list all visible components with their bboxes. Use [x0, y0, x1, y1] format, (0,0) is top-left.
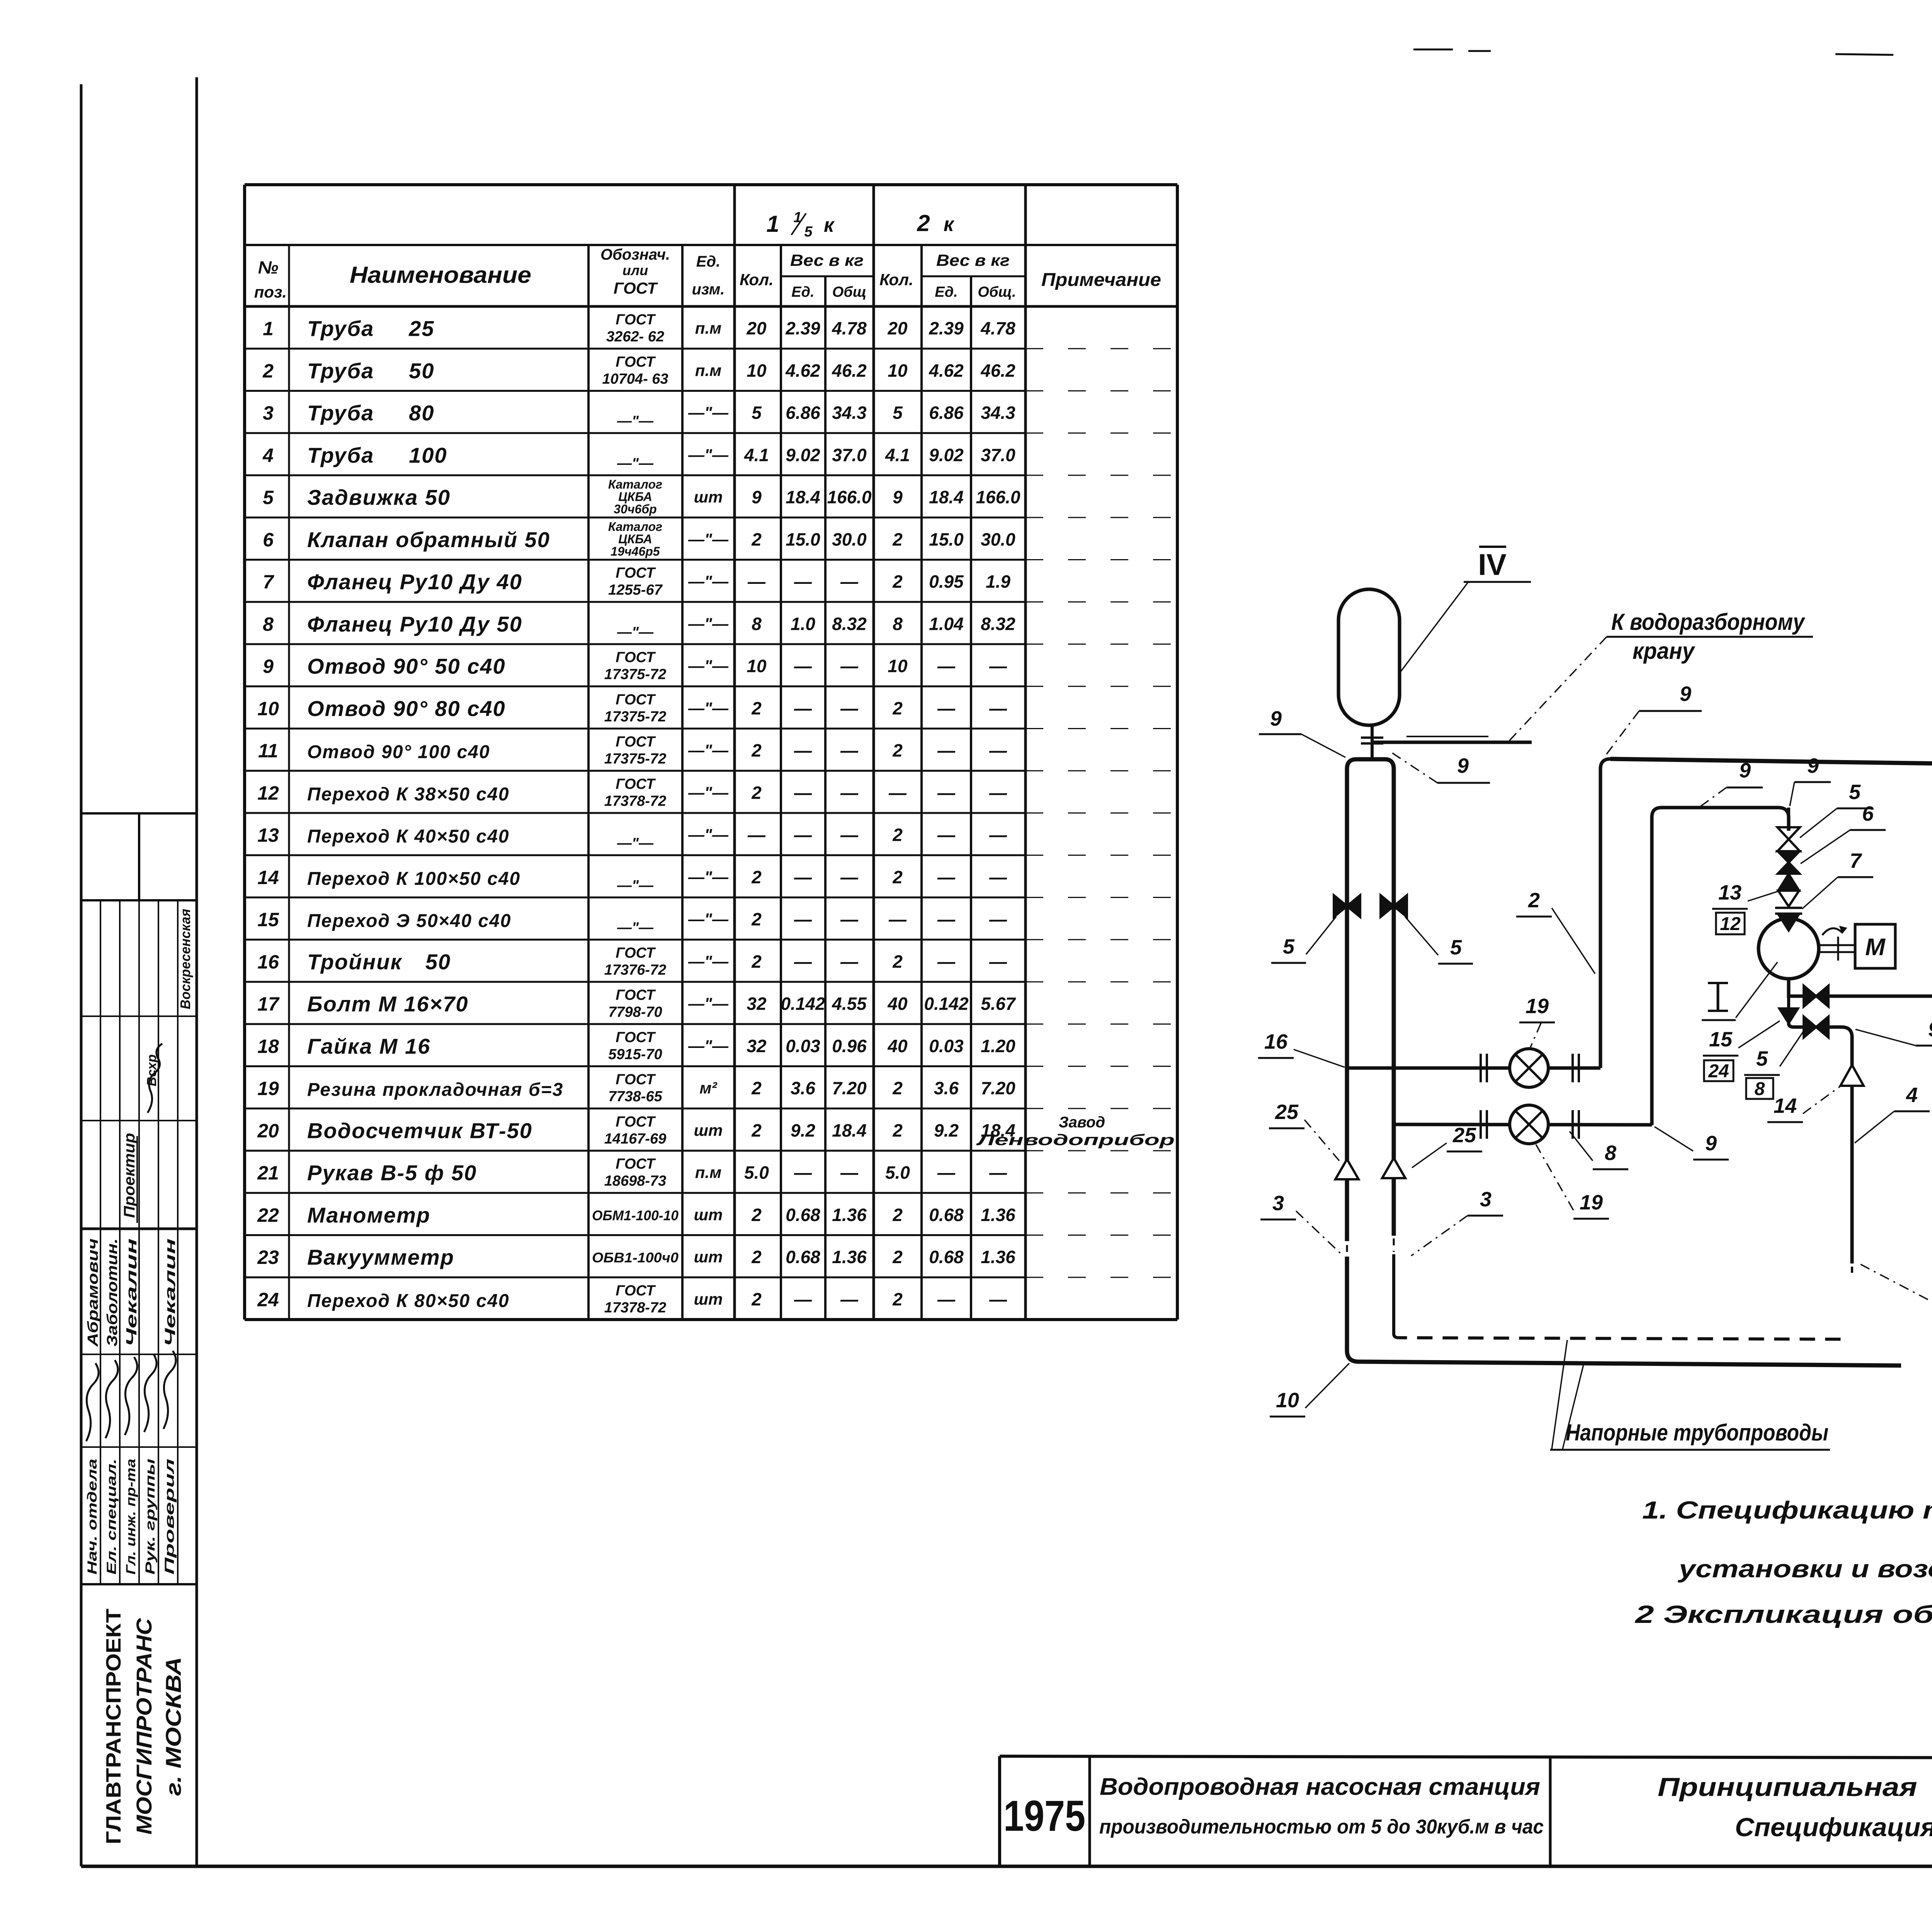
svg-text:—"—: —"— [688, 657, 729, 675]
svg-text:8.32: 8.32 [981, 614, 1015, 634]
svg-text:—: — [840, 698, 859, 718]
svg-text:37.0: 37.0 [832, 445, 867, 465]
svg-text:—: — [794, 1289, 812, 1309]
pump I suction branch [1789, 1023, 1852, 1264]
svg-text:6.86: 6.86 [929, 403, 964, 423]
svg-text:—"—: —"— [688, 1037, 729, 1055]
svg-text:ГОСТ: ГОСТ [614, 279, 658, 297]
svg-text:—: — [937, 825, 956, 845]
svg-text:—: — [840, 740, 859, 760]
svg-text:Всхр: Всхр [145, 1054, 159, 1087]
svg-text:10: 10 [888, 656, 908, 676]
valve 5 on pump I discharge [1804, 986, 1816, 1007]
svg-text:ГОСТ: ГОСТ [616, 776, 656, 792]
svg-text:2: 2 [892, 1205, 903, 1225]
svg-text:4: 4 [262, 444, 274, 466]
svg-text:Кол.: Кол. [879, 270, 913, 289]
svg-text:5: 5 [752, 403, 762, 423]
svg-text:п.м: п.м [695, 319, 721, 337]
svg-text:Вакуумметр: Вакуумметр [307, 1245, 454, 1269]
svg-text:9.02: 9.02 [929, 445, 964, 465]
svg-text:Труба 80: Труба 80 [307, 401, 435, 425]
svg-text:8: 8 [893, 614, 903, 634]
svg-text:К водоразборному: К водоразборному [1611, 609, 1805, 635]
svg-text:Рук. группы: Рук. группы [143, 1459, 158, 1575]
svg-text:—: — [937, 740, 956, 760]
svg-text:Абрамович: Абрамович [85, 1238, 101, 1347]
svg-text:2: 2 [892, 529, 903, 549]
svg-text:Болт М 16×70: Болт М 16×70 [307, 992, 469, 1016]
svg-text:или: или [622, 262, 648, 278]
svg-text:IV: IV [1478, 548, 1507, 582]
svg-text:2: 2 [892, 867, 903, 887]
svg-text:14167-69: 14167-69 [604, 1131, 667, 1147]
svg-text:20: 20 [887, 318, 908, 338]
svg-text:п.м: п.м [695, 1163, 721, 1182]
svg-text:—"—: —"— [688, 446, 729, 464]
svg-text:7: 7 [1850, 849, 1862, 872]
svg-text:17: 17 [257, 993, 280, 1015]
svg-text:6.86: 6.86 [786, 403, 820, 423]
svg-text:Переход К 40×50 с40: Переход К 40×50 с40 [307, 827, 510, 847]
svg-text:4.62: 4.62 [785, 361, 820, 381]
svg-text:17378-72: 17378-72 [604, 1299, 667, 1316]
svg-text:—: — [840, 782, 859, 803]
svg-text:Чекалин: Чекалин [124, 1238, 140, 1347]
svg-text:—"—: —"— [688, 614, 729, 633]
svg-text:9: 9 [752, 487, 762, 507]
svg-text:Ленводоприбор: Ленводоприбор [976, 1131, 1175, 1148]
svg-text:0.95: 0.95 [929, 571, 964, 592]
svg-text:14: 14 [1774, 1094, 1797, 1117]
svg-text:10: 10 [1276, 1389, 1299, 1412]
svg-text:9: 9 [1680, 682, 1691, 706]
svg-text:Ел. специал.: Ел. специал. [104, 1459, 119, 1575]
svg-text:5: 5 [1756, 1047, 1768, 1070]
svg-text:ОБМ1-100-10: ОБМ1-100-10 [592, 1207, 679, 1223]
svg-text:15: 15 [1709, 1028, 1733, 1051]
svg-text:8: 8 [752, 614, 762, 634]
svg-text:—: — [888, 909, 907, 929]
pipe riser A (поз.3) [1347, 759, 1372, 1241]
svg-text:5: 5 [1283, 935, 1295, 958]
svg-text:18: 18 [257, 1036, 279, 1057]
svg-text:производительностью от 5 до 3: производительностью от 5 до 30куб.м в ча… [1099, 1816, 1544, 1838]
svg-text:—: — [794, 1163, 812, 1183]
svg-text:—: — [794, 867, 812, 887]
svg-text:20: 20 [257, 1120, 279, 1141]
svg-text:Примечание: Примечание [1041, 270, 1161, 290]
svg-text:4.62: 4.62 [929, 361, 964, 381]
svg-text:1.36: 1.36 [981, 1205, 1015, 1225]
svg-text:7.20: 7.20 [832, 1078, 867, 1098]
pump I reducer 13/12 (cones) [1778, 874, 1799, 891]
svg-text:—: — [937, 656, 956, 676]
reducer 25 on riser B [1382, 1158, 1405, 1178]
svg-text:—"—: —"— [688, 403, 729, 422]
svg-text:шт: шт [694, 1290, 723, 1308]
svg-text:9: 9 [263, 656, 274, 677]
svg-text:—: — [794, 656, 812, 676]
title block top line [1000, 1756, 1932, 1759]
svg-text:2: 2 [751, 1205, 762, 1225]
svg-text:—: — [989, 782, 1007, 803]
svg-text:30ч6бр: 30ч6бр [614, 502, 656, 516]
svg-text:10: 10 [257, 698, 279, 719]
svg-text:—: — [747, 825, 766, 845]
svg-text:—"—: —"— [688, 910, 729, 928]
svg-text:Гл. инж. пр-та: Гл. инж. пр-та [124, 1459, 138, 1575]
gate valve 5 on riser B [1381, 895, 1394, 917]
sidebar divider above small cells [81, 812, 197, 815]
svg-text:22: 22 [257, 1204, 279, 1226]
svg-text:—: — [937, 782, 956, 803]
svg-text:7.20: 7.20 [981, 1078, 1015, 1098]
svg-text:Клапан обратный 50: Клапан обратный 50 [307, 527, 550, 552]
svg-text:—: — [840, 656, 859, 676]
svg-text:7738-65: 7738-65 [608, 1088, 662, 1105]
svg-text:2: 2 [751, 1289, 762, 1309]
svg-text:—"—: —"— [688, 952, 729, 970]
svg-text:19: 19 [1526, 995, 1549, 1018]
svg-text:—: — [794, 698, 812, 718]
svg-text:15: 15 [257, 909, 279, 930]
svg-text:—: — [794, 951, 812, 971]
svg-text:—: — [840, 1163, 859, 1183]
svg-text:—: — [888, 782, 907, 803]
svg-text:2: 2 [892, 1289, 903, 1309]
svg-text:18.4: 18.4 [786, 487, 820, 507]
main top header pipe [1611, 759, 1932, 812]
svg-text:5915-70: 5915-70 [608, 1046, 662, 1063]
svg-text:—: — [794, 571, 812, 592]
svg-text:ГОСТ: ГОСТ [616, 945, 656, 961]
svg-text:Переход К 38×50 с40: Переход К 38×50 с40 [307, 784, 510, 804]
svg-text:—"—: —"— [617, 835, 654, 852]
svg-text:—: — [794, 909, 812, 929]
svg-text:1.9: 1.9 [986, 571, 1010, 592]
svg-text:8: 8 [1755, 1079, 1765, 1099]
svg-text:2.39: 2.39 [929, 318, 964, 338]
meter line 2 pipe [1394, 1124, 1652, 1125]
svg-text:2: 2 [751, 867, 762, 887]
svg-text:0.142: 0.142 [924, 994, 969, 1014]
svg-text:Заболотин.: Заболотин. [104, 1238, 121, 1347]
svg-text:13: 13 [257, 825, 279, 846]
svg-text:к: к [824, 214, 835, 236]
pump I inlet cone [1779, 916, 1798, 930]
svg-text:Принципиальная схема.: Принципиальная схема. [1658, 1772, 1932, 1802]
svg-text:0.68: 0.68 [929, 1205, 964, 1225]
svg-text:4.1: 4.1 [885, 445, 910, 465]
svg-text:2: 2 [892, 951, 903, 971]
svg-text:г. МОСКВА: г. МОСКВА [161, 1657, 185, 1796]
svg-text:9.02: 9.02 [786, 445, 820, 465]
svg-text:—: — [840, 867, 859, 887]
svg-text:0.68: 0.68 [929, 1247, 964, 1267]
svg-text:МОСГИПРОТРАНС: МОСГИПРОТРАНС [132, 1617, 156, 1835]
svg-text:—"—: —"— [688, 741, 729, 759]
svg-text:15.0: 15.0 [929, 529, 964, 549]
svg-text:1: 1 [766, 211, 779, 237]
svg-text:4.78: 4.78 [832, 318, 867, 338]
svg-text:Кол.: Кол. [740, 270, 774, 289]
svg-text:24: 24 [1708, 1061, 1729, 1082]
svg-text:5.0: 5.0 [885, 1163, 910, 1183]
svg-text:ГОСТ: ГОСТ [616, 987, 656, 1003]
svg-text:—: — [989, 951, 1007, 971]
svg-text:2: 2 [751, 698, 762, 718]
svg-text:—: — [937, 1289, 956, 1309]
svg-text:3.6: 3.6 [791, 1078, 815, 1098]
svg-text:—: — [937, 698, 956, 718]
svg-text:шт: шт [694, 488, 723, 506]
svg-text:Вес в кг: Вес в кг [790, 251, 864, 269]
svg-text:9: 9 [893, 487, 903, 507]
svg-text:3: 3 [1272, 1192, 1284, 1215]
water meter 20 lower (circle-X) [1510, 1105, 1548, 1144]
page frame bottom border [81, 1865, 1932, 1868]
svg-text:Ед.: Ед. [791, 284, 814, 300]
svg-text:24: 24 [257, 1289, 279, 1310]
svg-text:Переход К 80×50 с40: Переход К 80×50 с40 [307, 1291, 510, 1311]
svg-text:установки и воздушно-напорно: установки и воздушно-напорного колпака с… [1677, 1555, 1932, 1583]
svg-text:2: 2 [751, 1247, 762, 1267]
svg-text:12: 12 [257, 782, 279, 804]
svg-text:1: 1 [793, 209, 801, 226]
pump I flange 7 [1775, 907, 1802, 909]
svg-text:Переход Э 50×40 с40: Переход Э 50×40 с40 [307, 911, 512, 931]
svg-text:9: 9 [1270, 707, 1282, 730]
flanges on meter 1 [1480, 1054, 1482, 1082]
svg-text:9: 9 [1705, 1132, 1717, 1155]
svg-text:ГОСТ: ГОСТ [616, 1282, 656, 1299]
svg-text:—: — [794, 825, 812, 845]
svg-text:—: — [989, 656, 1007, 676]
svg-text:—: — [989, 1163, 1007, 1183]
svg-text:4.78: 4.78 [980, 318, 1015, 338]
page frame inner border (sidebar right / drawing left) [196, 77, 198, 1866]
svg-text:Каталог: Каталог [608, 520, 662, 534]
svg-text:166.0: 166.0 [976, 487, 1020, 507]
svg-text:—: — [989, 740, 1007, 760]
svg-text:ЦКБА: ЦКБА [618, 490, 652, 504]
svg-text:поз.: поз. [254, 283, 287, 301]
svg-text:—: — [747, 571, 766, 592]
svg-text:0.03: 0.03 [929, 1036, 964, 1056]
svg-text:ГОСТ: ГОСТ [616, 692, 656, 708]
svg-text:—: — [840, 909, 859, 929]
svg-text:5.0: 5.0 [744, 1163, 769, 1183]
table body rows [245, 348, 1026, 350]
svg-text:23: 23 [257, 1247, 279, 1268]
svg-text:17375-72: 17375-72 [604, 751, 667, 767]
svg-text:32: 32 [747, 994, 767, 1014]
svg-text:0.68: 0.68 [786, 1205, 820, 1225]
svg-text:—: — [937, 909, 956, 929]
sidebar signature table top line [81, 899, 197, 901]
flanges on meter 2 [1480, 1110, 1482, 1139]
svg-text:2: 2 [892, 740, 903, 760]
svg-text:—"—: —"— [688, 868, 729, 886]
svg-text:16: 16 [1264, 1030, 1288, 1053]
svg-text:2: 2 [892, 571, 903, 592]
svg-text:ГОСТ: ГОСТ [616, 1071, 656, 1088]
svg-text:2: 2 [262, 360, 274, 382]
svg-text:30.0: 30.0 [832, 529, 867, 549]
svg-text:18698-73: 18698-73 [604, 1173, 667, 1189]
svg-text:Манометр: Манометр [307, 1203, 430, 1227]
svg-text:6: 6 [263, 529, 274, 551]
svg-text:—"—: —"— [617, 624, 654, 640]
svg-text:Резина прокладочная б=3: Резина прокладочная б=3 [307, 1080, 563, 1100]
pipe riser B (поз.3) [1372, 759, 1394, 1236]
svg-text:—: — [937, 951, 956, 971]
svg-text:9.2: 9.2 [934, 1120, 959, 1140]
svg-text:шт: шт [694, 1121, 723, 1139]
svg-text:Воскресенская: Воскресенская [177, 909, 193, 1009]
svg-text:1.36: 1.36 [832, 1247, 867, 1267]
svg-text:17378-72: 17378-72 [604, 793, 667, 809]
svg-text:ГОСТ: ГОСТ [616, 354, 656, 370]
svg-text:1255-67: 1255-67 [608, 582, 663, 598]
svg-text:2: 2 [751, 529, 762, 549]
svg-text:46.2: 46.2 [832, 361, 867, 381]
svg-text:1: 1 [263, 318, 274, 340]
svg-text:10: 10 [747, 656, 767, 676]
svg-text:3262- 62: 3262- 62 [606, 329, 664, 345]
svg-text:Труба 25: Труба 25 [307, 316, 435, 341]
svg-text:Нач. отдела: Нач. отдела [85, 1459, 100, 1575]
svg-text:14: 14 [257, 867, 279, 888]
svg-text:—: — [989, 867, 1007, 887]
svg-text:ГОСТ: ГОСТ [616, 734, 656, 750]
svg-text:5: 5 [263, 487, 274, 509]
svg-text:—"—: —"— [617, 920, 654, 936]
svg-text:№: № [258, 257, 279, 277]
svg-text:0.142: 0.142 [781, 994, 825, 1014]
svg-text:—: — [794, 740, 812, 760]
svg-text:17375-72: 17375-72 [604, 709, 667, 725]
svg-text:2: 2 [892, 1078, 903, 1098]
svg-text:Проектир: Проектир [121, 1133, 138, 1218]
svg-text:М: М [1865, 934, 1886, 961]
svg-text:ГЛАВТРАНСПРОЕКТ: ГЛАВТРАНСПРОЕКТ [102, 1609, 125, 1844]
svg-text:2: 2 [917, 210, 930, 236]
svg-text:Труба 100: Труба 100 [307, 443, 447, 467]
svg-text:—: — [840, 825, 859, 845]
svg-text:2: 2 [751, 1120, 762, 1140]
svg-text:ГОСТ: ГОСТ [616, 312, 656, 328]
svg-text:9.2: 9.2 [791, 1120, 815, 1140]
svg-text:Каталог: Каталог [608, 478, 662, 492]
svg-text:—"—: —"— [688, 530, 729, 548]
svg-text:—"—: —"— [617, 878, 654, 894]
svg-text:19: 19 [1580, 1191, 1603, 1214]
pump I shaft [1819, 944, 1855, 946]
svg-text:Обознач.: Обознач. [600, 246, 670, 263]
svg-text:4.1: 4.1 [744, 445, 769, 465]
svg-text:—"—: —"— [688, 783, 729, 801]
svg-text:крану: крану [1633, 638, 1695, 664]
svg-text:1.0: 1.0 [791, 614, 815, 634]
svg-text:25: 25 [1452, 1124, 1476, 1147]
pump I rotation arrow [1822, 928, 1842, 935]
svg-text:Отвод 90° 50 с40: Отвод 90° 50 с40 [307, 654, 506, 679]
svg-text:Водосчетчик ВТ-50: Водосчетчик ВТ-50 [307, 1118, 532, 1143]
svg-text:1.20: 1.20 [981, 1036, 1015, 1056]
gate valve 5 on riser A [1334, 895, 1347, 917]
svg-text:—"—: —"— [617, 413, 654, 429]
svg-text:0.03: 0.03 [786, 1036, 820, 1056]
svg-text:Задвижка 50: Задвижка 50 [307, 485, 451, 510]
svg-text:10: 10 [888, 361, 908, 381]
svg-text:2: 2 [892, 825, 903, 845]
svg-text:ОБВ1-100ч0: ОБВ1-100ч0 [592, 1250, 679, 1265]
svg-text:37.0: 37.0 [981, 445, 1015, 465]
svg-text:п.м: п.м [695, 361, 721, 379]
svg-text:2: 2 [892, 698, 903, 718]
page frame left outer border [80, 84, 83, 1866]
spec table outer and header grid [245, 183, 1177, 186]
svg-text:—: — [840, 951, 859, 971]
svg-text:9: 9 [1928, 1018, 1932, 1041]
riser from header to meter line 1 [1600, 759, 1611, 1068]
water meter 20 (circle-X) [1510, 1049, 1548, 1087]
svg-text:18.4: 18.4 [832, 1120, 867, 1140]
svg-text:шт: шт [694, 1206, 723, 1224]
sidebar signatures scrawl [86, 1363, 99, 1441]
pump I valve stack: gate valve 5 [1777, 827, 1800, 839]
svg-text:—: — [989, 1289, 1007, 1309]
svg-text:2: 2 [1528, 889, 1540, 912]
svg-text:0.68: 0.68 [786, 1247, 820, 1267]
pipe to water tap [1372, 741, 1532, 744]
svg-text:ГОСТ: ГОСТ [616, 1156, 656, 1172]
svg-text:2: 2 [751, 782, 762, 803]
svg-text:17376-72: 17376-72 [604, 962, 667, 978]
svg-text:2 Экспликация оборудования: 2 Экспликация оборудования см. лист ТХ-1 [1635, 1600, 1932, 1628]
svg-text:Водопроводная насосная станц: Водопроводная насосная станция [1100, 1774, 1540, 1800]
svg-text:8.32: 8.32 [832, 614, 867, 634]
pump I discharge pipe to header 1 [1789, 789, 1932, 996]
svg-text:Чекалин: Чекалин [162, 1238, 179, 1347]
svg-text:40: 40 [887, 994, 908, 1014]
svg-text:7: 7 [263, 571, 274, 593]
svg-text:—"—: —"— [688, 826, 729, 844]
pump I casing [1759, 918, 1819, 979]
svg-text:2: 2 [892, 1120, 903, 1140]
svg-text:10: 10 [747, 361, 767, 381]
svg-text:1.36: 1.36 [981, 1247, 1015, 1267]
svg-text:—: — [989, 909, 1007, 929]
svg-text:18.4: 18.4 [929, 487, 964, 507]
vessel IV vacuum tank [1338, 589, 1400, 725]
svg-text:Труба 50: Труба 50 [307, 359, 435, 383]
svg-text:Тройник 50: Тройник 50 [307, 949, 451, 974]
svg-text:13: 13 [1718, 881, 1742, 904]
svg-text:Общ.: Общ. [978, 284, 1016, 300]
svg-text:м²: м² [699, 1079, 717, 1097]
svg-text:Вес в кг: Вес в кг [936, 251, 1010, 269]
svg-text:Проверил: Проверил [162, 1459, 177, 1575]
svg-text:ЦКБА: ЦКБА [618, 532, 652, 546]
svg-text:1. Спецификацию труб, фас: 1. Спецификацию труб, фасонных частей и … [1642, 1496, 1932, 1524]
svg-text:34.3: 34.3 [832, 403, 867, 423]
meter line 1 pipe [1347, 1066, 1600, 1070]
svg-text:—: — [840, 1289, 859, 1309]
svg-text:1.04: 1.04 [929, 614, 964, 634]
